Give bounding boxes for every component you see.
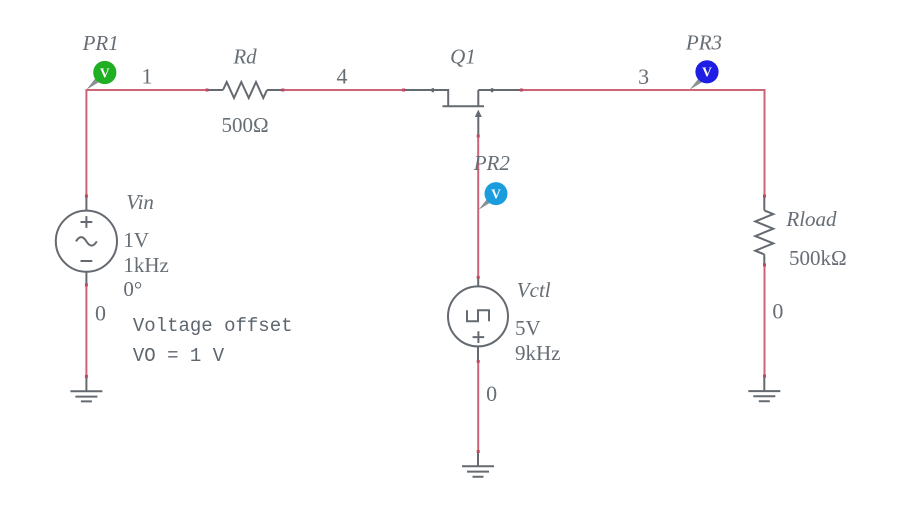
wire: right branch lower vertical — [764, 265, 766, 377]
svg-text:PR2: PR2 — [473, 151, 511, 175]
svg-text:5V: 5V — [515, 316, 541, 340]
wire: middle branch upper vertical (gate net) — [477, 136, 479, 278]
wire: middle branch lower vertical — [477, 361, 479, 452]
wire: node 3 horizontal — [522, 89, 765, 91]
svg-text:Rload: Rload — [785, 207, 837, 231]
svg-text:Voltage offset: Voltage offset — [133, 315, 293, 337]
svg-text:500kΩ: 500kΩ — [789, 246, 847, 270]
wire: top left node 1 horizontal — [86, 89, 208, 91]
wire: node 4 horizontal — [282, 89, 403, 91]
svg-text:0°: 0° — [123, 277, 142, 301]
svg-text:9kHz: 9kHz — [515, 341, 561, 365]
svg-text:Rd: Rd — [232, 45, 257, 69]
svg-text:500Ω: 500Ω — [221, 113, 268, 137]
ground (left) — [70, 377, 102, 401]
resistor Rload — [755, 196, 773, 265]
square-wave source Vctl — [448, 278, 508, 361]
ground (right) — [748, 377, 780, 402]
svg-text:V: V — [100, 65, 110, 80]
svg-text:0: 0 — [772, 298, 783, 323]
svg-text:Vctl: Vctl — [517, 278, 551, 302]
svg-text:1: 1 — [142, 64, 153, 89]
svg-text:Vin: Vin — [126, 190, 154, 214]
probe PR1 — [86, 61, 116, 90]
svg-text:1V: 1V — [123, 228, 149, 252]
resistor Rd — [207, 82, 283, 98]
AC source Vin — [56, 197, 117, 285]
wire endpoint nubs — [206, 89, 209, 92]
svg-text:Q1: Q1 — [450, 45, 476, 69]
svg-text:PR3: PR3 — [685, 31, 722, 55]
wire: right branch upper vertical — [764, 89, 766, 196]
transistor Q1 — [403, 90, 522, 136]
svg-text:V: V — [702, 65, 712, 80]
svg-text:VO = 1 V: VO = 1 V — [133, 345, 225, 367]
svg-text:4: 4 — [337, 64, 348, 89]
svg-text:0: 0 — [486, 381, 497, 406]
svg-text:0: 0 — [95, 301, 106, 326]
ground (middle) — [462, 452, 494, 477]
probe PR2 — [479, 182, 508, 210]
svg-text:V: V — [491, 187, 501, 202]
probe PR3 — [690, 60, 719, 90]
svg-text:1kHz: 1kHz — [123, 253, 168, 277]
svg-text:PR1: PR1 — [82, 31, 119, 55]
wire: left branch lower vertical — [85, 285, 87, 378]
transistor pin junction ticks — [432, 88, 434, 92]
svg-text:3: 3 — [638, 64, 649, 89]
wire: left branch upper vertical — [85, 89, 87, 197]
